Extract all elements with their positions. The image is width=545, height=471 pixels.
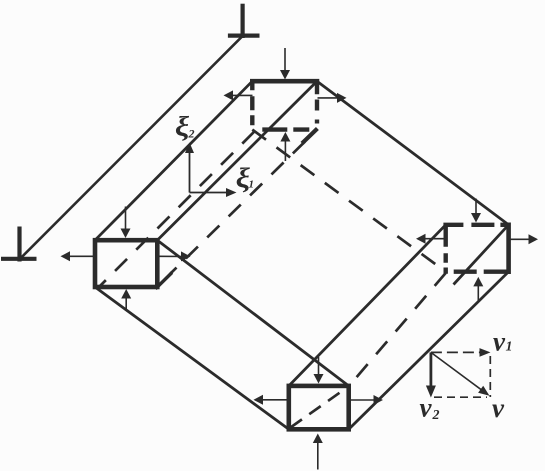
svg-text:2: 2 (188, 127, 195, 141)
svg-text:v: v (492, 393, 505, 423)
svg-text:1: 1 (249, 179, 255, 191)
svg-text:v: v (420, 393, 433, 423)
svg-text:v: v (493, 327, 506, 357)
svg-text:1: 1 (506, 340, 513, 355)
svg-text:2: 2 (432, 408, 440, 423)
